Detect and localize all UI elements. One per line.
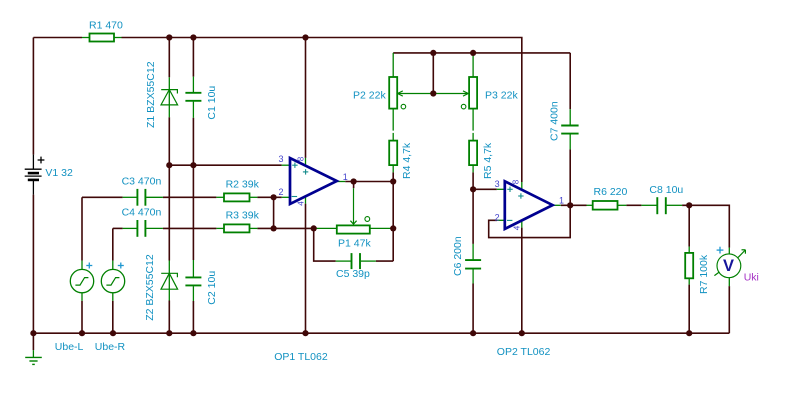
svg-text:8: 8 — [512, 179, 521, 184]
svg-text:C6 200n: C6 200n — [452, 236, 464, 276]
svg-text:P3 22k: P3 22k — [485, 89, 518, 101]
svg-text:Z1 BZX55C12: Z1 BZX55C12 — [145, 61, 157, 128]
svg-text:R6 220: R6 220 — [594, 186, 628, 198]
svg-text:C5 39p: C5 39p — [336, 268, 370, 280]
svg-text:C1 10u: C1 10u — [206, 86, 218, 120]
svg-text:4: 4 — [513, 225, 522, 230]
svg-text:P1 47k: P1 47k — [338, 237, 371, 249]
svg-text:OP1 TL062: OP1 TL062 — [274, 351, 328, 363]
svg-text:C3 470n: C3 470n — [122, 175, 162, 187]
svg-text:3: 3 — [279, 154, 284, 164]
svg-text:R1 470: R1 470 — [89, 20, 123, 32]
svg-text:R3 39k: R3 39k — [226, 210, 260, 222]
svg-text:2: 2 — [495, 212, 500, 222]
svg-text:R7 100k: R7 100k — [698, 254, 710, 294]
svg-text:Ube-L: Ube-L — [55, 341, 84, 353]
svg-text:C4 470n: C4 470n — [122, 207, 162, 219]
svg-text:P2 22k: P2 22k — [353, 89, 386, 101]
svg-text:C2 10u: C2 10u — [206, 271, 218, 305]
svg-text:3: 3 — [495, 179, 500, 189]
svg-text:OP2 TL062: OP2 TL062 — [497, 346, 551, 358]
svg-text:1: 1 — [559, 195, 564, 205]
svg-text:C7 400n: C7 400n — [549, 101, 561, 141]
svg-text:8: 8 — [296, 156, 305, 161]
svg-text:C8 10u: C8 10u — [649, 184, 683, 196]
svg-text:V1 32: V1 32 — [45, 167, 73, 179]
svg-text:V: V — [723, 257, 734, 275]
svg-text:R4 4,7k: R4 4,7k — [401, 142, 413, 179]
svg-text:2: 2 — [279, 187, 284, 197]
svg-text:R2 39k: R2 39k — [226, 179, 260, 191]
svg-text:4: 4 — [296, 201, 305, 206]
svg-text:R5 4,7k: R5 4,7k — [482, 142, 494, 179]
svg-text:Ube-R: Ube-R — [95, 341, 126, 353]
svg-text:Z2 BZX55C12: Z2 BZX55C12 — [144, 254, 156, 321]
svg-text:1: 1 — [343, 172, 348, 182]
svg-text:Uki: Uki — [744, 272, 759, 284]
